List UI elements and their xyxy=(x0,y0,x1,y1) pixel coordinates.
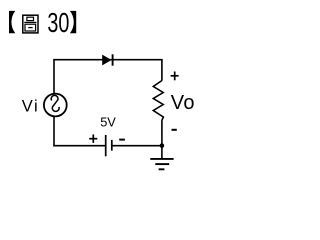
svg-text:Vo: Vo xyxy=(171,92,195,114)
svg-text:Vi: Vi xyxy=(22,98,38,116)
svg-text:30: 30 xyxy=(47,7,69,38)
svg-text:5V: 5V xyxy=(100,114,116,129)
